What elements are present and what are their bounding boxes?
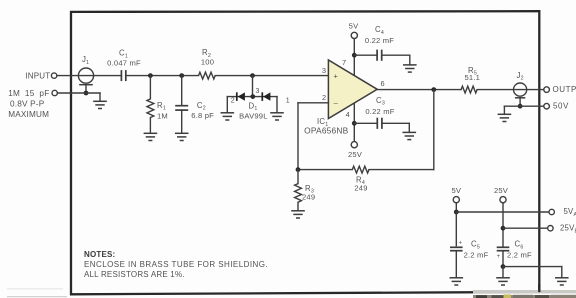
svg-text:3: 3 [322, 66, 326, 75]
svg-text:INPUT: INPUT [25, 71, 50, 80]
svg-text:2.2 mF: 2.2 mF [507, 250, 532, 259]
svg-text:249: 249 [302, 192, 315, 201]
svg-text:–: – [334, 98, 339, 107]
svg-text:0.22 mF: 0.22 mF [365, 107, 394, 116]
svg-text:25V: 25V [494, 186, 509, 195]
svg-text:50V: 50V [553, 102, 569, 111]
svg-text:2.2 mF: 2.2 mF [464, 250, 489, 259]
svg-text:OPA656NB: OPA656NB [304, 126, 348, 136]
svg-text:MAXIMUM: MAXIMUM [8, 110, 49, 119]
svg-text:249: 249 [354, 184, 367, 193]
svg-text:5V: 5V [349, 22, 359, 31]
svg-text:2: 2 [231, 98, 235, 105]
svg-text:NOTES:: NOTES: [84, 250, 115, 259]
svg-text:4: 4 [346, 110, 350, 119]
svg-text:ALL RESISTORS ARE 1%.: ALL RESISTORS ARE 1%. [84, 270, 185, 279]
svg-text:1M 15 pF: 1M 15 pF [8, 89, 49, 98]
svg-text:51.1: 51.1 [465, 73, 481, 82]
svg-text:0.8V P-P: 0.8V P-P [10, 99, 45, 108]
svg-text:25V: 25V [348, 150, 363, 159]
svg-text:1: 1 [286, 98, 290, 105]
svg-text:6: 6 [381, 79, 385, 88]
svg-text:+: + [497, 254, 501, 260]
svg-text:0.047 mF: 0.047 mF [107, 58, 141, 67]
svg-text:OUTPUT: OUTPUT [553, 85, 576, 94]
svg-text:BAV99L: BAV99L [239, 112, 268, 121]
svg-text:6.8 pF: 6.8 pF [191, 111, 214, 120]
svg-text:5V: 5V [451, 186, 461, 195]
svg-text:0.22 mF: 0.22 mF [365, 36, 394, 45]
svg-text:1M: 1M [157, 111, 168, 120]
svg-text:+: + [458, 241, 462, 247]
svg-text:2: 2 [322, 93, 326, 102]
svg-text:100: 100 [201, 57, 214, 66]
svg-text:+: + [334, 71, 339, 80]
svg-text:ENCLOSE IN BRASS TUBE FOR SHIE: ENCLOSE IN BRASS TUBE FOR SHIELDING. [84, 260, 268, 269]
svg-text:7: 7 [342, 58, 346, 67]
svg-text:3: 3 [256, 88, 260, 95]
